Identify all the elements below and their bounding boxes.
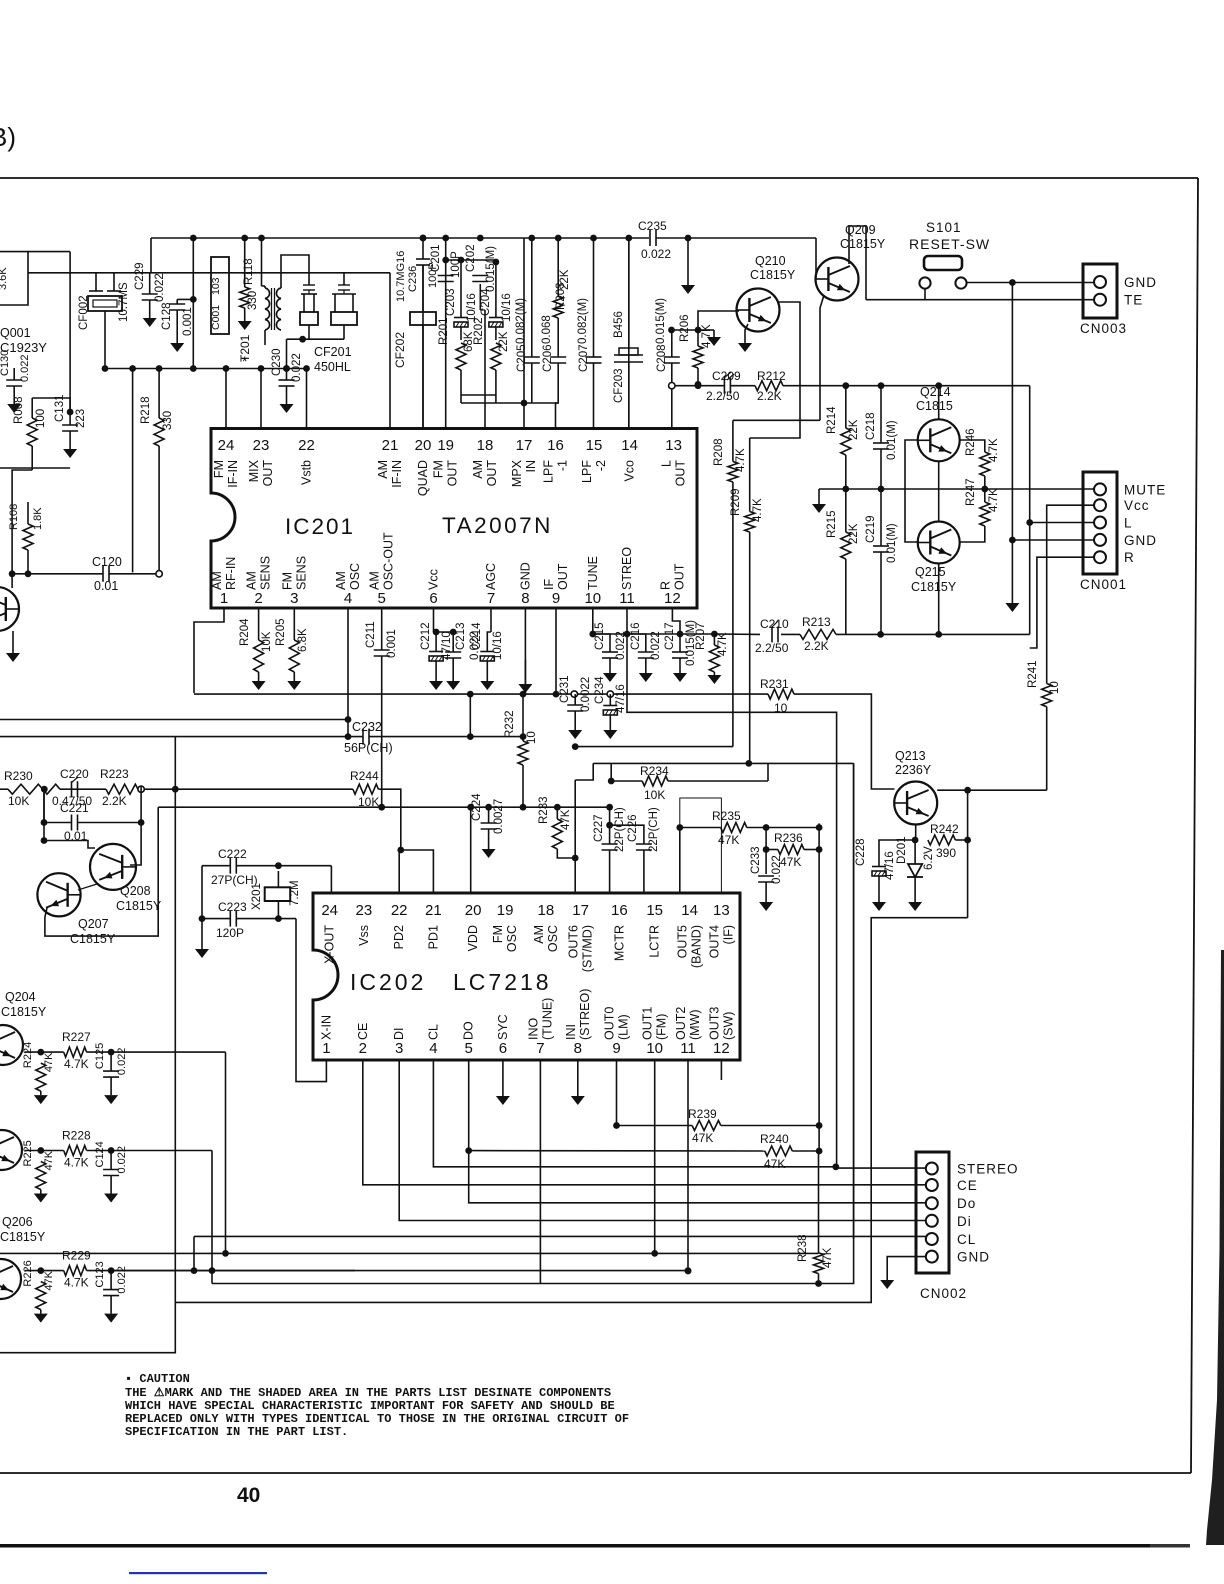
wire C229 top: [114, 272, 390, 274]
svg-text:0.022: 0.022: [19, 354, 31, 382]
capacitor C232: [362, 729, 364, 745]
wire Q215 base: [905, 489, 918, 542]
svg-text:4.7K: 4.7K: [717, 632, 729, 656]
capacitor C226: [636, 843, 652, 845]
transistor Q-left edge: [0, 587, 19, 631]
svg-text:CN003: CN003: [1080, 321, 1127, 336]
svg-text:1: 1: [220, 590, 228, 607]
wire Q206 row right: [111, 1270, 355, 1272]
svg-text:20: 20: [415, 437, 432, 454]
svg-text:FM: FM: [280, 572, 294, 590]
svg-text:4.7K: 4.7K: [988, 438, 1000, 462]
svg-text:SENS: SENS: [259, 556, 273, 590]
capacitor C206: [550, 356, 566, 358]
svg-text:0.068: 0.068: [541, 315, 553, 344]
svg-text:C125: C125: [94, 1043, 106, 1069]
capacitor C130: [6, 379, 22, 381]
svg-text:22K: 22K: [848, 523, 860, 544]
svg-text:CN001: CN001: [1080, 577, 1127, 592]
wire R244 right: [378, 789, 400, 850]
resistor R242: [928, 835, 956, 845]
svg-text:R241: R241: [1027, 661, 1039, 689]
svg-text:0.0027: 0.0027: [493, 799, 505, 834]
resistor R231: [768, 689, 794, 699]
svg-text:-1: -1: [556, 460, 570, 471]
capacitor C219: [873, 545, 889, 547]
resistor R247: [980, 502, 990, 526]
svg-text:AGC: AGC: [484, 563, 498, 590]
ground C235: [687, 238, 689, 285]
svg-text:(ST/MD): (ST/MD): [581, 925, 595, 972]
wire C223 to pin1: [296, 919, 326, 1082]
wire bus y694: [194, 693, 768, 695]
svg-text:IN: IN: [524, 460, 538, 473]
svg-text:R208: R208: [713, 439, 725, 467]
svg-text:PD2: PD2: [392, 925, 406, 949]
bottom thick line: [0, 1544, 1152, 1548]
wire TE line: [866, 299, 1094, 301]
svg-text:THE ⚠MARK AND THE SHADED AREA: THE ⚠MARK AND THE SHADED AREA IN THE PAR…: [125, 1386, 611, 1400]
svg-text:C236: C236: [407, 266, 419, 292]
svg-text:4.7K: 4.7K: [988, 488, 1000, 512]
svg-text:C216: C216: [630, 623, 642, 651]
svg-text:17: 17: [516, 437, 533, 454]
capacitor C208: [664, 356, 680, 358]
svg-text:SPECIFICATION IN THE PART LIST: SPECIFICATION IN THE PART LIST.: [125, 1425, 348, 1439]
svg-text:47K: 47K: [43, 1270, 55, 1290]
wire Q209 emitter down: [820, 295, 824, 420]
wire pin23 up: [260, 369, 262, 429]
capacitor C235: [649, 230, 651, 246]
filter CF202: [422, 265, 424, 312]
svg-text:22: 22: [298, 437, 315, 454]
svg-text:7.2M: 7.2M: [289, 880, 301, 906]
svg-text:4: 4: [429, 1040, 437, 1057]
svg-text:VDD: VDD: [466, 925, 480, 951]
svg-text:13: 13: [665, 437, 682, 454]
transistor Q205 row R228 R225 C124: [64, 1146, 87, 1156]
svg-text:8: 8: [574, 1040, 582, 1057]
svg-text:C224: C224: [471, 793, 483, 821]
svg-text:0.082(M): 0.082(M): [515, 298, 527, 344]
svg-text:21: 21: [382, 437, 399, 454]
transistor Q208: [90, 844, 136, 890]
svg-text:OUT: OUT: [446, 460, 460, 487]
diode D201 zener: [914, 840, 916, 864]
resistor R239: [692, 1121, 721, 1131]
svg-text:C204: C204: [480, 288, 492, 316]
wire CN002 GND: [887, 1257, 926, 1272]
resistor R238: [814, 1253, 824, 1274]
svg-text:6: 6: [429, 590, 437, 607]
resistor R223: [106, 784, 138, 794]
svg-text:3.6K: 3.6K: [0, 267, 9, 290]
svg-text:CF202: CF202: [393, 332, 407, 368]
wire C128 to bus: [177, 298, 193, 300]
svg-text:-2: -2: [594, 460, 608, 471]
wire main y368 bus: [105, 368, 308, 370]
wire R236 left col: [765, 828, 767, 875]
svg-text:Vcc: Vcc: [1124, 498, 1150, 513]
svg-text:L: L: [1124, 516, 1133, 531]
wire CN001 R: [1030, 557, 1094, 648]
resistor R213: [800, 629, 836, 639]
svg-text:C231: C231: [559, 676, 571, 704]
svg-text:20: 20: [465, 902, 482, 919]
svg-text:OUT0: OUT0: [603, 1007, 617, 1040]
svg-text:0.001: 0.001: [386, 629, 398, 658]
svg-text:0.015(M): 0.015(M): [655, 298, 667, 344]
svg-text:(FM): (FM): [655, 1014, 669, 1040]
svg-text:23: 23: [253, 437, 270, 454]
wire R244 to pin22: [399, 850, 401, 893]
box 3.6K component at left edge: [0, 252, 28, 305]
capacitor C221: [71, 815, 73, 831]
svg-text:0.022: 0.022: [650, 631, 662, 660]
svg-text:120P: 120P: [216, 926, 244, 940]
resistor R233: [552, 819, 562, 849]
svg-text:SYC: SYC: [496, 1014, 510, 1040]
wire CN001 GND: [1012, 539, 1094, 541]
transistor Q209: [816, 258, 859, 301]
svg-text:4.7K: 4.7K: [752, 498, 764, 522]
svg-text:Q204: Q204: [5, 990, 36, 1004]
svg-text:TE: TE: [1124, 293, 1143, 308]
wire x967 col: [967, 790, 969, 918]
svg-text:R242: R242: [930, 822, 959, 836]
wire CN001 MUTE: [985, 488, 1094, 490]
svg-text:4.7K: 4.7K: [64, 1057, 89, 1071]
transistor Q206: [0, 1259, 21, 1299]
svg-text:R234: R234: [640, 764, 669, 778]
wire Q204 row right: [111, 1051, 225, 1053]
svg-text:▪ CAUTION: ▪ CAUTION: [125, 1372, 190, 1386]
wire bus y763: [593, 762, 853, 764]
svg-text:WHICH HAVE SPECIAL CHARACTERIS: WHICH HAVE SPECIAL CHARACTERISTIC IMPORT…: [125, 1399, 615, 1413]
resistor R246: [980, 452, 990, 476]
svg-text:R239: R239: [688, 1107, 717, 1121]
svg-text:5: 5: [378, 590, 386, 607]
capacitor C211: [374, 649, 390, 651]
svg-text:C211: C211: [365, 621, 377, 648]
svg-text:11: 11: [680, 1040, 696, 1057]
svg-text:CE: CE: [356, 1023, 370, 1040]
svg-text:Q208: Q208: [120, 884, 151, 898]
filter CF203 B456: [628, 238, 630, 350]
capacitor C204: [489, 317, 503, 319]
svg-text:47K: 47K: [780, 855, 801, 869]
svg-text:0.01: 0.01: [94, 579, 118, 593]
wire S101 bus down: [1011, 283, 1013, 594]
svg-text:Vstb: Vstb: [300, 460, 314, 485]
svg-text:IF-IN: IF-IN: [390, 460, 404, 488]
svg-text:47/16: 47/16: [615, 684, 627, 713]
wire Q214 base: [905, 440, 918, 489]
connector CN003: [1083, 264, 1117, 318]
svg-text:Vcc: Vcc: [427, 569, 441, 590]
svg-text:R225: R225: [22, 1140, 34, 1166]
capacitor C201: [438, 275, 454, 277]
svg-text:B): B): [0, 122, 16, 152]
wire R238 bottom right: [819, 763, 854, 1283]
svg-text:C221: C221: [60, 801, 89, 815]
svg-text:330: 330: [247, 291, 259, 310]
svg-text:56P(CH): 56P(CH): [344, 741, 393, 755]
resistor R232: [518, 741, 528, 765]
capacitor C236: [416, 258, 430, 260]
wire pin20 up: [422, 238, 424, 259]
svg-text:C128: C128: [161, 303, 173, 331]
svg-text:GND: GND: [1124, 533, 1157, 548]
wire CN001 Vcc: [1047, 505, 1094, 683]
svg-text:47K: 47K: [822, 1247, 834, 1268]
svg-text:10K: 10K: [644, 788, 665, 802]
svg-text:C213: C213: [455, 623, 467, 651]
resistor R201: [456, 343, 466, 370]
svg-text:AM: AM: [210, 571, 224, 590]
svg-text:22P(CH): 22P(CH): [648, 807, 660, 852]
svg-text:6.2V: 6.2V: [923, 846, 935, 870]
svg-text:12: 12: [713, 1040, 730, 1057]
wire S101 to CN003 GND: [967, 282, 1094, 284]
svg-text:Q214: Q214: [920, 385, 951, 399]
wire pin8 down: [524, 608, 526, 693]
wire T201 top drop: [261, 238, 263, 286]
svg-text:47K: 47K: [692, 1131, 713, 1145]
svg-text:R214: R214: [826, 406, 838, 434]
svg-text:R: R: [1124, 550, 1135, 565]
wire pin24 up: [225, 369, 227, 429]
svg-text:OUT4: OUT4: [707, 925, 721, 958]
wire Q207 emitter loop: [45, 807, 158, 936]
transistor Q206 row R229 R226 C123: [64, 1266, 87, 1276]
wire bus y634 right: [714, 633, 760, 635]
svg-text:100: 100: [35, 409, 47, 428]
resistor R240: [765, 1146, 793, 1156]
wire pin4 down: [433, 1060, 835, 1167]
svg-text:OUT: OUT: [674, 460, 688, 487]
svg-text:Di: Di: [957, 1214, 972, 1229]
wire Q207 Q208 join: [78, 884, 97, 890]
svg-text:390: 390: [936, 846, 956, 860]
svg-text:CE: CE: [957, 1178, 978, 1193]
frame bottom line: [0, 1472, 1191, 1474]
svg-text:LC7218: LC7218: [453, 969, 552, 995]
transformer T201: [265, 288, 270, 330]
svg-text:SENS: SENS: [294, 556, 308, 590]
svg-text:9: 9: [552, 590, 560, 607]
svg-text:(STREO): (STREO): [578, 989, 592, 1040]
capacitor C207: [586, 356, 602, 358]
svg-text:CL: CL: [957, 1232, 976, 1247]
svg-text:12: 12: [664, 590, 681, 607]
frame top line: [0, 177, 1198, 179]
svg-text:C226: C226: [627, 815, 639, 843]
svg-text:C1815Y: C1815Y: [0, 1230, 46, 1244]
svg-text:CF203: CF203: [613, 368, 625, 403]
scan artifact right edge: [1206, 950, 1224, 1545]
wire X201 to pin24: [330, 866, 332, 893]
svg-text:(TUNE): (TUNE): [540, 998, 554, 1040]
svg-text:R227: R227: [62, 1030, 91, 1044]
capacitor C220: [71, 781, 73, 797]
svg-text:10K: 10K: [8, 794, 29, 808]
svg-text:16: 16: [611, 902, 628, 919]
svg-text:C120: C120: [92, 555, 122, 569]
svg-text:CF002: CF002: [78, 295, 90, 330]
svg-text:15: 15: [586, 437, 603, 454]
ground pin8: [577, 1060, 579, 1096]
wire pin10 down: [654, 1060, 656, 1253]
svg-text:21: 21: [425, 902, 442, 919]
svg-text:0.022: 0.022: [641, 247, 671, 261]
svg-text:R232: R232: [504, 711, 516, 739]
svg-text:24: 24: [321, 902, 338, 919]
svg-text:AM: AM: [245, 571, 259, 590]
ground Q210 emitter: [744, 340, 746, 343]
resistor R202: [491, 343, 501, 370]
svg-text:R228: R228: [62, 1129, 91, 1143]
svg-text:R231: R231: [760, 677, 789, 691]
capacitor C213: [445, 651, 461, 653]
svg-text:Do: Do: [957, 1196, 976, 1211]
wire pin6 down split: [433, 608, 435, 632]
svg-text:0.01(M): 0.01(M): [886, 523, 898, 563]
svg-text:C203: C203: [445, 289, 457, 317]
svg-text:OUT3: OUT3: [707, 1007, 721, 1040]
svg-text:4.7K: 4.7K: [701, 324, 713, 348]
resistor R208: [728, 462, 738, 483]
svg-text:3: 3: [290, 590, 298, 607]
svg-text:4.7K: 4.7K: [64, 1156, 89, 1170]
svg-text:LPF: LPF: [542, 460, 556, 483]
svg-text:2.2K: 2.2K: [757, 389, 782, 403]
svg-text:R244: R244: [350, 769, 379, 783]
svg-text:Q215: Q215: [915, 565, 946, 579]
wire bus y807: [158, 806, 557, 808]
svg-text:17: 17: [572, 902, 589, 919]
resistor R244: [353, 784, 379, 794]
resistor R209: [745, 512, 755, 533]
svg-text:10/16: 10/16: [501, 293, 513, 322]
svg-text:Q213: Q213: [895, 749, 926, 763]
wire y1271 line: [111, 1270, 688, 1272]
wire pin9 col down: [555, 634, 557, 694]
svg-text:TA2007N: TA2007N: [442, 513, 553, 538]
wire bus y489: [819, 488, 985, 490]
svg-text:22P(CH): 22P(CH): [614, 807, 626, 852]
resistor R205: [289, 640, 299, 672]
svg-text:0.01(M): 0.01(M): [886, 420, 898, 460]
svg-text:R201: R201: [438, 318, 450, 346]
svg-text:14: 14: [681, 902, 698, 919]
svg-text:24: 24: [218, 437, 235, 454]
svg-text:10/16: 10/16: [492, 631, 504, 660]
wire pin1 down-left: [194, 608, 224, 693]
svg-text:R209: R209: [730, 489, 742, 517]
wire Q214 emitter to Q215: [938, 461, 940, 521]
svg-text:R236: R236: [774, 831, 803, 845]
svg-text:GND: GND: [518, 562, 532, 590]
svg-text:2.2/50: 2.2/50: [755, 641, 789, 655]
svg-text:C130: C130: [0, 350, 11, 376]
svg-text:C214: C214: [471, 622, 483, 650]
svg-text:1.8K: 1.8K: [32, 507, 44, 530]
svg-text:23: 23: [356, 902, 373, 919]
svg-text:IF-IN: IF-IN: [226, 460, 240, 488]
svg-text:R212: R212: [757, 369, 786, 383]
wire y1253 line: [0, 1252, 819, 1254]
wire R008 top: [32, 398, 70, 412]
svg-text:C131: C131: [54, 395, 66, 423]
capacitor C120: [102, 566, 104, 582]
svg-text:22K: 22K: [559, 269, 571, 290]
svg-text:C001: C001: [210, 305, 222, 330]
wire pin9 down: [555, 608, 557, 634]
resistor R108: [27, 502, 29, 524]
capacitor C218: [873, 442, 889, 444]
svg-text:C215: C215: [594, 623, 606, 651]
svg-text:DO: DO: [462, 1021, 476, 1040]
wire L-col down: [1029, 386, 1031, 635]
svg-text:(IF): (IF): [721, 925, 735, 944]
svg-text:OSC: OSC: [348, 563, 362, 590]
svg-text:C212: C212: [420, 623, 432, 651]
wire R231 to Q213 base: [794, 694, 895, 789]
svg-text:C1815Y: C1815Y: [750, 268, 796, 282]
svg-text:IC202: IC202: [350, 969, 426, 995]
wire R241 bottom to Q213: [937, 789, 1046, 791]
svg-text:AM: AM: [376, 460, 390, 479]
svg-text:Vss: Vss: [357, 925, 371, 946]
svg-text:C232: C232: [352, 720, 382, 734]
svg-text:X-OUT: X-OUT: [323, 925, 337, 964]
transistor Q210: [737, 289, 780, 332]
svg-text:40: 40: [237, 1484, 260, 1507]
svg-text:10: 10: [646, 1040, 663, 1057]
svg-text:R240: R240: [760, 1132, 789, 1146]
capacitor C227: [602, 843, 618, 845]
resistor R118: [240, 287, 250, 308]
svg-text:2.2K: 2.2K: [102, 794, 127, 808]
svg-text:RESET-SW: RESET-SW: [909, 236, 990, 252]
svg-text:(LM): (LM): [617, 1014, 631, 1040]
capacitor C228: [872, 866, 886, 868]
svg-text:FM: FM: [491, 925, 505, 943]
wire R235 top leg: [680, 798, 722, 893]
svg-text:10.7MS: 10.7MS: [118, 282, 130, 322]
svg-text:2.2/50: 2.2/50: [706, 389, 740, 403]
resistor R206: [693, 346, 703, 368]
svg-text:14: 14: [621, 437, 638, 454]
resistor R218: [154, 418, 164, 446]
svg-text:18: 18: [538, 902, 555, 919]
wire CL hook: [193, 1236, 195, 1270]
svg-text:0.082(M): 0.082(M): [577, 298, 589, 344]
wire pin11 down: [687, 1060, 689, 1271]
svg-text:OUT: OUT: [556, 563, 570, 590]
svg-text:OUT: OUT: [672, 563, 686, 590]
wire pin7 down: [539, 1060, 541, 1284]
svg-text:16: 16: [547, 437, 564, 454]
svg-text:R230: R230: [4, 769, 33, 783]
wire top bus left drop: [150, 238, 152, 273]
svg-text:GND: GND: [1124, 275, 1157, 290]
svg-text:FM: FM: [432, 460, 446, 478]
svg-text:(BAND): (BAND): [690, 925, 704, 968]
svg-text:AM: AM: [532, 925, 546, 944]
svg-text:REPLACED ONLY WITH TYPES IDENT: REPLACED ONLY WITH TYPES IDENTICAL TO TH…: [125, 1412, 629, 1426]
